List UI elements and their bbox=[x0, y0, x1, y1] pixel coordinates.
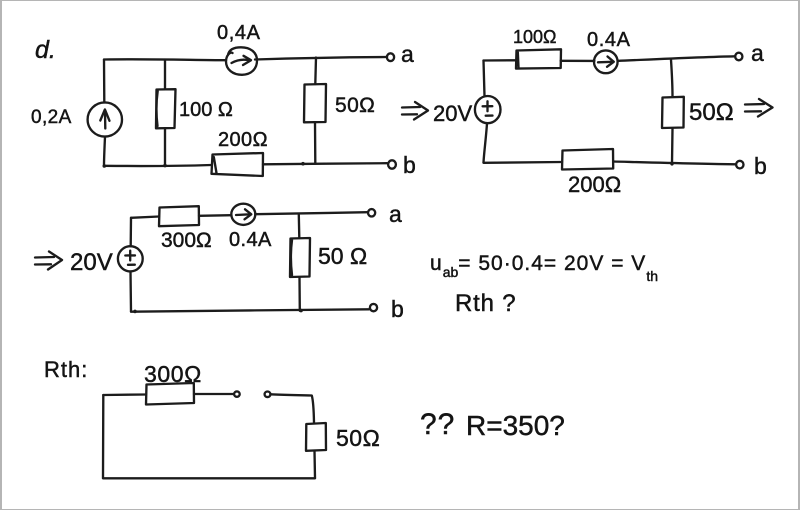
wire between resistor and source (circuit 3) bbox=[199, 214, 232, 217]
node b terminal (circuit 2) bbox=[736, 161, 743, 169]
svg-text:20V: 20V bbox=[70, 249, 113, 276]
node b terminal (circuit 1) bbox=[388, 160, 396, 168]
wire left vertical lower (circuit 1) bbox=[104, 137, 105, 166]
wire left vertical (circuit 4) bbox=[102, 395, 105, 478]
svg-text:200Ω: 200Ω bbox=[218, 129, 268, 151]
current source 0.4A (circuit 3) bbox=[231, 204, 255, 225]
wire left vertical lower (circuit 2) bbox=[484, 124, 488, 163]
svg-text:300Ω: 300Ω bbox=[161, 229, 212, 252]
svg-text:50Ω: 50Ω bbox=[335, 94, 375, 117]
wire bottom segment right to terminal b (circuit 2) bbox=[613, 162, 736, 165]
value label 100Ω (circuit 2) bbox=[513, 27, 557, 47]
svg-text:Rth ?: Rth ? bbox=[455, 290, 516, 317]
value label 0,2A bbox=[31, 107, 72, 128]
implication arrow before circuit 3 bbox=[35, 252, 62, 270]
resistor 300Ω (circuit 3) bbox=[159, 206, 199, 226]
value label 300Ω (circuit 3) bbox=[161, 229, 212, 252]
junction dot (circuit 2 bottom 50Ω) bbox=[670, 162, 673, 165]
voltage source 20V (circuit 2) bbox=[475, 96, 501, 123]
wire bottom-right segment to terminal b (circuit 1) bbox=[263, 163, 387, 164]
node label b (circuit 1) bbox=[403, 152, 416, 178]
wire top-left horizontal (circuit 1, node a net) bbox=[104, 58, 226, 61]
value label 300Ω (circuit 4) bbox=[144, 361, 202, 387]
current source 0.2A bbox=[88, 102, 122, 136]
value label 50Ω (circuit 1) bbox=[335, 94, 375, 117]
node a terminal (circuit 3) bbox=[368, 209, 375, 216]
node label a (circuit 1) bbox=[401, 41, 414, 67]
value label 0,4A (circuit 1) bbox=[217, 22, 261, 44]
node a terminal (circuit 1) bbox=[387, 53, 394, 61]
svg-text:a: a bbox=[751, 40, 764, 66]
implication arrow between circuit 1 and 2 bbox=[402, 102, 428, 120]
node label b (circuit 2) bbox=[754, 153, 767, 179]
svg-text:0,2A: 0,2A bbox=[31, 107, 72, 128]
value label 200Ω (circuit 2) bbox=[568, 172, 621, 197]
label d. bbox=[35, 36, 56, 64]
wire between resistor and source (circuit 2) bbox=[561, 60, 595, 62]
svg-text:0,4A: 0,4A bbox=[217, 22, 261, 44]
junction dot (circuit 3 bottom 50Ω) bbox=[299, 309, 303, 313]
wire top-right segment to terminal a (circuit 1) bbox=[255, 57, 387, 60]
wire bottom segment left (circuit 2) bbox=[484, 161, 563, 164]
svg-text:100Ω: 100Ω bbox=[513, 27, 557, 47]
label Rth: (circuit 4) bbox=[44, 357, 88, 382]
implication arrow right of circuit 2 bbox=[745, 99, 773, 117]
svg-text:100 Ω: 100 Ω bbox=[179, 99, 233, 121]
svg-text:R=350?: R=350? bbox=[466, 410, 565, 441]
wire from resistor to open terminal (circuit 4) bbox=[194, 393, 234, 395]
wire bottom (circuit 4) bbox=[103, 477, 315, 479]
svg-text:b: b bbox=[403, 152, 416, 178]
junction dot (circuit 1 bottom 100Ω) bbox=[163, 164, 167, 168]
svg-text:0.4A: 0.4A bbox=[229, 229, 272, 251]
value label 100Ω (circuit 1) bbox=[179, 99, 233, 121]
resistor 200Ω (circuit 2) bbox=[562, 149, 613, 170]
annotation Rth ? bbox=[455, 290, 516, 317]
resistor 100Ω (circuit 2) bbox=[516, 49, 561, 68]
value label 50Ω (circuit 4) bbox=[336, 425, 380, 451]
value label 200Ω (circuit 1) bbox=[218, 129, 268, 151]
annotation ?? R=350? bbox=[420, 408, 455, 441]
junction dot (circuit 1 bottom left) bbox=[103, 164, 107, 168]
svg-text:b: b bbox=[754, 153, 767, 179]
equation u_ab = 50·0.4 = 20V = Vth bbox=[430, 252, 658, 284]
node label a (circuit 2) bbox=[751, 40, 764, 66]
resistor 200Ω (circuit 1) bbox=[212, 153, 264, 176]
node b terminal (circuit 3) bbox=[370, 304, 377, 311]
wire top-left stub (circuit 4) bbox=[103, 393, 146, 396]
wire from open terminal to resistor 50Ω (circuit 4) bbox=[271, 394, 315, 422]
value label 0.4A (circuit 2) bbox=[587, 29, 631, 51]
wire left vertical upper (circuit 2) bbox=[484, 61, 485, 97]
svg-text:20V: 20V bbox=[433, 101, 472, 126]
svg-text:50 Ω: 50 Ω bbox=[318, 243, 367, 269]
node a terminal (circuit 2) bbox=[735, 53, 742, 61]
wire top segment left (circuit 2) bbox=[484, 59, 517, 62]
junction dot (circuit 1 bottom 50Ω) bbox=[301, 162, 305, 166]
node label a (circuit 3) bbox=[389, 201, 402, 227]
svg-text:200Ω: 200Ω bbox=[568, 172, 621, 197]
svg-text:0.4A: 0.4A bbox=[587, 29, 631, 51]
current source 0.4A (circuit 1) bbox=[226, 47, 257, 75]
wire top segment right to terminal a (circuit 3) bbox=[255, 212, 368, 214]
svg-text:b: b bbox=[391, 296, 404, 322]
resistor 50Ω (circuit 3) bbox=[290, 215, 310, 311]
source value label 20V (circuit 2) bbox=[433, 101, 472, 126]
open terminal left (circuit 4) bbox=[234, 391, 240, 396]
voltage source 20V (circuit 3) bbox=[118, 246, 143, 271]
svg-text:a: a bbox=[401, 41, 414, 67]
wire below resistor (circuit 4) bbox=[313, 451, 316, 478]
svg-text:d.: d. bbox=[35, 36, 56, 64]
wire left vertical lower (circuit 3) bbox=[129, 272, 132, 312]
svg-text:??: ?? bbox=[420, 408, 455, 441]
node label b (circuit 3) bbox=[391, 296, 404, 322]
wire top segment left (circuit 3) bbox=[131, 217, 159, 218]
svg-text:Rth:: Rth: bbox=[44, 357, 88, 382]
resistor 100Ω (circuit 1) bbox=[156, 60, 176, 166]
resistor 50Ω (circuit 1) bbox=[304, 58, 326, 164]
value label 50Ω (circuit 2) bbox=[689, 99, 734, 126]
wire bottom-left segment (circuit 1) bbox=[104, 164, 211, 167]
current source 0.4A (circuit 2) bbox=[594, 50, 618, 73]
resistor 50Ω (circuit 2) bbox=[662, 60, 684, 164]
resistor 300Ω (circuit 4) bbox=[146, 383, 194, 405]
wire left vertical upper (circuit 3) bbox=[130, 218, 133, 246]
svg-text:uab= 50·0.4= 20V = Vth: uab= 50·0.4= 20V = Vth bbox=[430, 252, 658, 284]
svg-text:a: a bbox=[389, 201, 402, 227]
resistor 50Ω (circuit 4) bbox=[306, 423, 326, 451]
wire bottom segment to terminal b (circuit 3) bbox=[131, 309, 369, 311]
svg-text:50Ω: 50Ω bbox=[336, 425, 380, 451]
value label 50Ω (circuit 3) bbox=[318, 243, 367, 269]
svg-text:50Ω: 50Ω bbox=[689, 99, 734, 126]
value label 0.4A (circuit 3) bbox=[229, 229, 272, 251]
wire left vertical upper (circuit 1) bbox=[103, 60, 106, 103]
source value label 20V (circuit 3) bbox=[70, 249, 113, 276]
junction dot (circuit 3 bottom left) bbox=[133, 310, 137, 314]
open terminal right (circuit 4) bbox=[265, 392, 271, 398]
wire top segment right to terminal a (circuit 2) bbox=[618, 56, 735, 61]
